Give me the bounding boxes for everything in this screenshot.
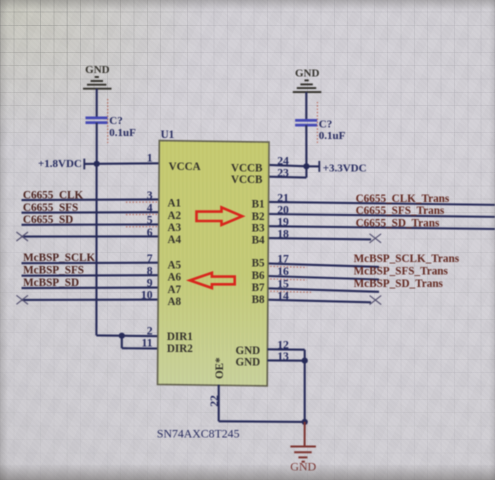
artifact red dots wire 5 — [126, 226, 159, 228]
wire to DIR2 pin 11 — [122, 347, 160, 349]
op-amp substitute: IC U1 SN74AXC8T245 body — [158, 141, 270, 386]
wire pin 22 to GND net — [219, 420, 305, 423]
wire McBSP_SCLK to pin 7 A5 — [22, 262, 161, 265]
power port GND (left, above C?) — [83, 77, 112, 89]
wire pin 12 GND — [267, 348, 304, 351]
wire GND to right C? top — [305, 92, 307, 120]
wire +1.8VDC to pin 1 VCCA — [97, 162, 160, 165]
wire pin 13 GND — [267, 359, 304, 361]
wire McBSP_SFS to pin 8 A6 — [22, 274, 161, 277]
wire to DIR1 pin 2 — [96, 334, 159, 337]
wire pin 10 A8 (n.c.) — [22, 299, 161, 301]
artifact red dots wire 4 — [126, 213, 159, 215]
junction DIR1/DIR2 — [119, 333, 125, 339]
wire pin 15 B7 McBSP_SD_Trans — [267, 288, 379, 292]
artifact red dots wire 3 — [126, 201, 159, 203]
wire +1.8VDC to junction — [84, 163, 96, 165]
wire McBSP_SD to pin 9 A7 — [22, 287, 161, 290]
power port +3.3VDC bar — [318, 161, 320, 172]
artifact red dots (left cap) — [107, 99, 109, 143]
wire pin 6 A4 (n.c.) — [22, 235, 161, 237]
power port GND (bottom) — [290, 422, 316, 462]
no-ERC mark pin 10 wire — [16, 295, 28, 304]
junction +1.8VDC node — [94, 161, 100, 167]
wire C6655_CLK to pin 3 A1 — [22, 198, 161, 201]
no-ERC mark pin 14 wire — [370, 296, 382, 305]
wire pin 17 B5 McBSP_SCLK_Trans — [267, 263, 379, 267]
artifact red dots wire 17 — [267, 266, 307, 267]
wire pin 24 VCCB to +3.3VDC node — [268, 165, 306, 166]
power port GND (right, above C?) — [293, 80, 322, 92]
wire C6655_SD to pin 5 A3 — [22, 223, 161, 226]
wire pin 19 B3 C6655_SD_Trans — [268, 226, 495, 229]
wire pin23 up to junction — [305, 166, 307, 177]
wire GND vertical — [304, 350, 306, 422]
junction +3.3VDC node — [303, 163, 309, 169]
power port +1.8VDC bar — [83, 159, 85, 170]
wire pin 20 B2 C6655_SFS_Trans — [268, 214, 495, 217]
artifact red dots (right cap) — [316, 102, 318, 144]
wire GND to C? top — [96, 89, 98, 118]
annotation arrow (left, at A6/A7) — [190, 273, 235, 288]
wire pin 22 OE* down — [218, 385, 220, 422]
wire C? bottom to +1.8VDC node — [96, 123, 98, 164]
wire pin 23 VCCB — [268, 176, 306, 179]
junction pin 13 GND — [302, 358, 308, 364]
wire C6655_SFS to pin 4 A2 — [22, 211, 161, 214]
wire +1.8VDC down to DIR1 — [95, 164, 97, 336]
annotation arrow (right, at B2) — [197, 207, 243, 225]
wire right C? bottom to +3.3VDC node — [305, 125, 307, 166]
wire pin 16 B6 McBSP_SFS_Trans — [267, 276, 379, 280]
artifact red dots wire 16 — [267, 279, 307, 280]
wire pin 21 B1 C6655_CLK_Trans — [268, 202, 495, 205]
wire pin 18 B4 (n.c.) — [268, 238, 372, 239]
no-ERC mark pin 6 wire — [16, 232, 28, 241]
artifact red dots wire 15 — [267, 291, 311, 292]
junction OE*/GND — [302, 419, 308, 425]
capacitor C1 (left decoupling C?) — [86, 118, 108, 123]
no-ERC mark pin 18 wire — [370, 234, 382, 243]
capacitor C2 (right decoupling C?) — [295, 120, 317, 125]
wire to +3.3VDC port — [306, 165, 319, 167]
wire pin 14 B8 (n.c.) — [267, 300, 371, 303]
wire junction down to DIR2 — [121, 336, 123, 349]
